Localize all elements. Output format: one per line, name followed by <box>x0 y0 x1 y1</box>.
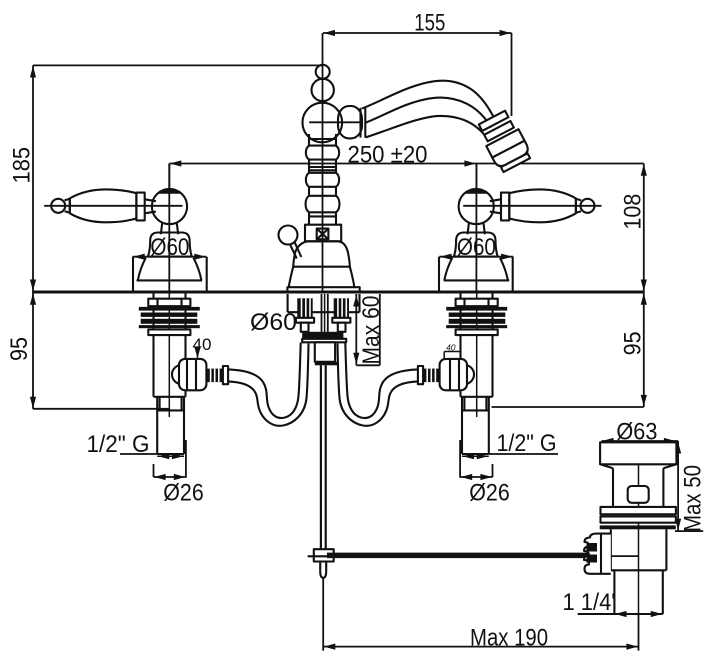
svg-text:Ø60: Ø60 <box>457 234 496 261</box>
central escutcheon below deck <box>288 294 360 312</box>
svg-text:95: 95 <box>6 337 33 361</box>
escutcheon box <box>305 225 341 242</box>
svg-text:Ø60: Ø60 <box>150 234 189 261</box>
handle axis <box>168 164 170 293</box>
svg-text:Ø26: Ø26 <box>469 480 510 507</box>
dark gasket <box>600 525 676 529</box>
plinth <box>287 287 359 292</box>
hose collar <box>223 366 228 384</box>
elbow bump <box>465 365 475 384</box>
svg-text:Max 50: Max 50 <box>680 465 707 532</box>
gasket rings <box>139 307 200 311</box>
joint ball <box>152 189 187 224</box>
dim 40 right <box>444 352 460 360</box>
svg-text:185: 185 <box>9 147 36 184</box>
dim Max60 <box>356 294 380 365</box>
flange rings <box>601 507 676 514</box>
flange nut <box>148 299 190 307</box>
rod tip <box>320 562 326 578</box>
column under body ball <box>306 134 340 225</box>
svg-text:1/2" G: 1/2" G <box>497 430 557 457</box>
svg-text:1 1/4': 1 1/4' <box>563 589 616 616</box>
drain lower body <box>611 529 667 570</box>
faucet axis <box>322 33 324 292</box>
hose collar <box>418 366 423 384</box>
joint cap (dark) <box>157 189 181 194</box>
dim dia26 right <box>460 440 558 478</box>
elbow nut <box>440 359 467 390</box>
svg-text:Max 60: Max 60 <box>358 296 385 365</box>
spout top curve <box>362 81 498 124</box>
ribbed nipple <box>423 369 440 383</box>
spout middle curve <box>365 98 491 128</box>
dome rect <box>439 257 513 292</box>
svg-text:Ø26: Ø26 <box>163 480 204 507</box>
shank walls <box>491 294 493 397</box>
guide block dark base <box>315 362 338 366</box>
handle centerline <box>44 205 182 207</box>
ribbed nipple <box>206 369 223 383</box>
stem <box>468 223 485 234</box>
drain flange <box>600 442 676 464</box>
arrows 250 <box>170 160 182 166</box>
dome inner skirt <box>138 258 202 281</box>
dome rect <box>133 257 207 292</box>
flex hose <box>345 343 418 419</box>
popup rod <box>320 365 322 549</box>
svg-text:155: 155 <box>414 10 445 37</box>
popup rod tube <box>321 294 323 332</box>
arrows 108 <box>641 164 647 176</box>
half-inch dim arrows <box>462 455 489 457</box>
body bell <box>293 241 350 266</box>
svg-text:1/2" G: 1/2" G <box>87 431 150 458</box>
dim dia26 left <box>120 440 186 478</box>
drain upper body <box>613 468 663 507</box>
bulge ring 3 <box>306 196 340 213</box>
spout joint cushion <box>338 106 362 138</box>
tube shoulder <box>461 396 493 398</box>
arrows 95 right <box>641 293 647 305</box>
dome inner line <box>137 279 203 281</box>
flange nut <box>456 299 498 307</box>
stem <box>161 223 178 234</box>
tip ferrule <box>65 199 70 213</box>
spout bottom curve <box>366 116 489 140</box>
gear nut <box>584 534 611 574</box>
bulge ring 2 <box>306 173 339 187</box>
body skirt <box>289 267 355 288</box>
lever neck <box>490 199 501 213</box>
svg-text:108: 108 <box>620 194 647 230</box>
popup side lever <box>279 226 298 245</box>
lever tip ball <box>581 199 595 213</box>
elbow nut <box>179 359 206 390</box>
dia60 dim line with arrows <box>133 256 207 258</box>
fixture axis below deck <box>476 294 478 418</box>
narrow tube <box>156 397 158 454</box>
dome inner skirt <box>444 258 508 281</box>
half-inch dim arrows <box>157 455 184 457</box>
RIGHT below-deck fixture (mirror) <box>338 294 508 457</box>
svg-text:Max 190: Max 190 <box>470 625 548 652</box>
upper ball <box>312 79 334 101</box>
bell <box>454 233 498 257</box>
rod attach line <box>611 555 639 557</box>
mounting bar outline <box>302 339 346 343</box>
drain axis <box>638 444 640 614</box>
LEFT below-deck fixture <box>139 294 309 457</box>
joint cap (dark) <box>464 189 488 194</box>
rod guide block <box>315 342 335 362</box>
elbow bump <box>172 365 182 384</box>
dome inner line <box>444 279 510 281</box>
lever neck <box>145 199 156 213</box>
tube shoulder <box>154 396 186 398</box>
handle centerline <box>463 205 601 207</box>
lever tip ball <box>51 199 65 213</box>
gasket rings <box>446 307 507 311</box>
bell <box>148 233 192 257</box>
svg-text:40: 40 <box>446 343 456 353</box>
arrows 95 left <box>30 293 36 305</box>
svg-text:250 ±20: 250 ±20 <box>348 142 428 169</box>
flex hose <box>228 343 301 419</box>
tail rods <box>301 323 309 332</box>
svg-text:40: 40 <box>193 335 212 354</box>
dim Max190 <box>323 578 638 650</box>
RIGHT handle (mirror) <box>439 164 602 293</box>
fixture axis below deck <box>168 294 170 418</box>
horizontal linkage rod <box>327 553 590 559</box>
lock nut <box>456 330 498 336</box>
joint ball <box>459 189 494 224</box>
lever body <box>509 189 576 222</box>
dim 40 left <box>197 352 199 358</box>
arrows 155 <box>324 30 336 36</box>
lock nut <box>148 330 190 336</box>
dia60 dim line with arrows <box>439 256 513 258</box>
aerator collar bands <box>476 109 533 173</box>
deck line <box>33 291 644 294</box>
lever collar <box>501 193 509 221</box>
arrows 185 <box>30 66 36 78</box>
svg-text:95: 95 <box>620 331 647 355</box>
finial ball <box>316 65 330 79</box>
tailpiece <box>614 570 662 614</box>
handle axis <box>475 164 477 293</box>
tip ferrule <box>576 199 581 213</box>
body centerline <box>309 121 361 123</box>
rod clamp <box>308 555 314 557</box>
dim dia63 and Max50 <box>602 441 704 531</box>
main body ball <box>303 103 343 143</box>
LEFT handle <box>44 164 207 293</box>
shank walls <box>152 294 154 397</box>
mounting bar dark <box>302 332 343 339</box>
popup knob square <box>317 229 329 240</box>
svg-text:Ø63: Ø63 <box>616 419 657 446</box>
bulge ring 1 <box>306 146 339 160</box>
svg-text:Ø60: Ø60 <box>250 309 297 336</box>
tail nuts <box>296 318 314 323</box>
threaded tails <box>297 298 312 318</box>
dim 155 line <box>33 33 644 409</box>
dim 1 1/4 arrows <box>615 611 627 617</box>
narrow tube <box>488 397 490 454</box>
set screw <box>628 486 649 503</box>
spout collar <box>359 108 361 138</box>
lever collar <box>136 193 144 221</box>
lever body <box>70 189 137 222</box>
